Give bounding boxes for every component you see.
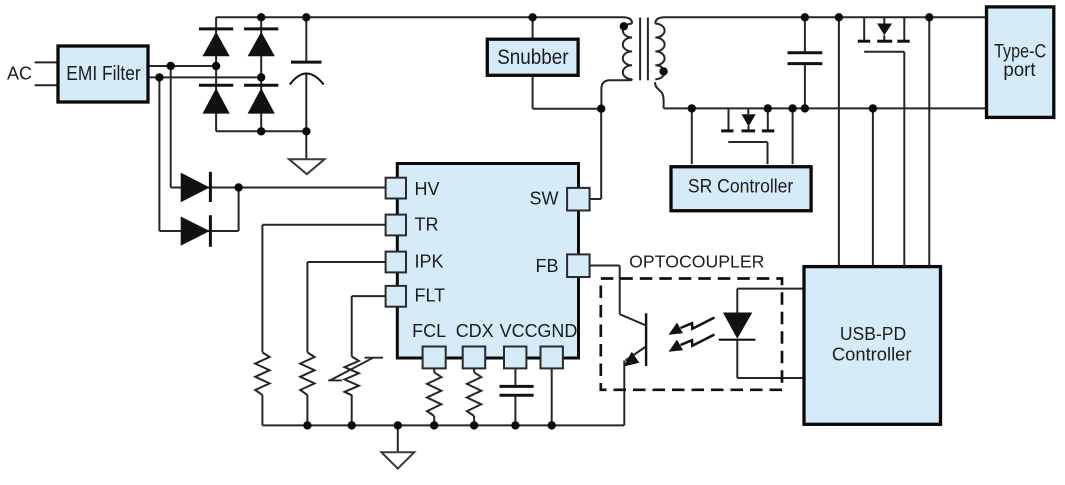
svg-text:CDX: CDX	[456, 321, 494, 341]
svg-text:SR Controller: SR Controller	[688, 175, 794, 197]
svg-text:AC: AC	[7, 64, 32, 84]
svg-text:Controller: Controller	[832, 345, 912, 365]
svg-text:port: port	[1003, 59, 1036, 81]
svg-text:FCL: FCL	[412, 321, 446, 341]
svg-text:HV: HV	[415, 179, 440, 199]
svg-text:Snubber: Snubber	[497, 46, 568, 69]
svg-text:SW: SW	[530, 189, 559, 209]
svg-text:VCC: VCC	[500, 321, 538, 341]
svg-text:USB-PD: USB-PD	[840, 324, 906, 344]
svg-text:IPK: IPK	[415, 252, 444, 272]
svg-text:EMI Filter: EMI Filter	[66, 62, 141, 85]
svg-text:TR: TR	[415, 214, 439, 234]
svg-text:FB: FB	[535, 256, 558, 276]
svg-text:GND: GND	[537, 321, 577, 341]
svg-text:FLT: FLT	[415, 286, 446, 306]
svg-text:OPTOCOUPLER: OPTOCOUPLER	[629, 252, 764, 272]
